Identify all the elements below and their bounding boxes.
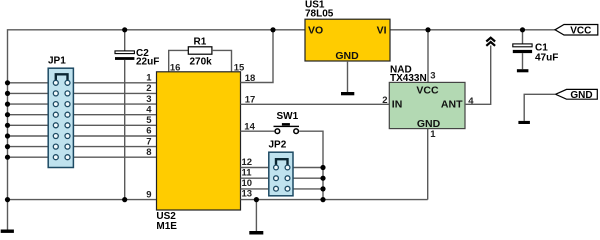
ground left rail [1, 230, 14, 233]
pin numbers 1-8 [146, 73, 152, 158]
svg-text:VI: VI [377, 25, 387, 37]
junction dots ground row [122, 197, 127, 202]
svg-text:VCC: VCC [570, 25, 591, 36]
switch SW1 [274, 111, 300, 133]
wire row1 [8, 82, 157, 84]
flag VCC [555, 25, 598, 37]
wire ground stub mid [255, 200, 257, 231]
svg-text:14: 14 [244, 121, 255, 132]
ground GND flag [518, 121, 530, 124]
svg-text:4: 4 [468, 96, 474, 107]
wire pin9 ground row [8, 199, 157, 201]
wire row8 [8, 156, 157, 158]
wire row6 [8, 135, 157, 137]
svg-text:R1: R1 [194, 36, 207, 47]
IC US1 78L05 [305, 0, 390, 62]
wire GND flag [524, 94, 555, 121]
svg-text:2: 2 [382, 95, 387, 106]
svg-text:6: 6 [146, 126, 151, 137]
connector JP1 [48, 55, 73, 167]
wire pin17 to TX IN [241, 103, 390, 105]
wire 5V top rail [8, 30, 306, 230]
wire pin13 ground row [241, 199, 428, 201]
wire SW1 to vertical [299, 131, 323, 199]
antenna [486, 38, 495, 46]
wire pin18 to 5V rail [241, 30, 274, 83]
svg-text:3: 3 [430, 71, 435, 82]
svg-text:M1E: M1E [156, 221, 177, 232]
svg-text:15: 15 [234, 63, 245, 74]
junction dots left rail [5, 80, 10, 202]
svg-text:18: 18 [245, 73, 256, 84]
svg-text:GND: GND [335, 50, 359, 62]
svg-text:4: 4 [146, 104, 152, 115]
svg-text:TX433N: TX433N [390, 73, 427, 84]
wire TX VCC to rail [427, 30, 429, 83]
svg-text:SW1: SW1 [277, 111, 299, 122]
connector JP2 [269, 140, 294, 196]
svg-text:11: 11 [242, 168, 253, 179]
svg-text:JP2: JP2 [269, 140, 287, 151]
capacitor C1 [513, 30, 559, 69]
svg-text:47uF: 47uF [535, 52, 558, 63]
ground US1 [341, 92, 354, 95]
svg-text:22uF: 22uF [136, 57, 159, 68]
svg-text:270k: 270k [190, 57, 213, 68]
capacitor C2 [115, 30, 159, 200]
ground mid [249, 231, 263, 235]
pin numbers 12 11 10 13 [242, 157, 253, 200]
svg-text:ANT: ANT [441, 99, 463, 111]
svg-text:VO: VO [308, 25, 323, 37]
svg-text:1: 1 [146, 73, 152, 84]
wire TX pin1 up [427, 129, 429, 200]
svg-text:VCC: VCC [416, 85, 439, 97]
svg-text:JP1: JP1 [48, 55, 66, 66]
svg-text:78L05: 78L05 [305, 8, 334, 19]
svg-text:2: 2 [146, 83, 151, 94]
junction dots JP2 vertical [320, 165, 325, 170]
wire row5 [8, 124, 157, 126]
wire VI rail to VCC flag [390, 29, 555, 31]
wire US1 gnd stub [347, 61, 349, 92]
junction dots top rail [122, 27, 127, 32]
svg-text:9: 9 [146, 189, 151, 200]
wire row3 [8, 103, 157, 105]
svg-text:17: 17 [245, 95, 256, 106]
svg-text:3: 3 [146, 94, 151, 105]
wire row4 [8, 114, 157, 116]
flag GND [556, 89, 598, 101]
wire pin14 row [241, 130, 275, 132]
IC US2 M1E [156, 72, 240, 232]
svg-text:13: 13 [242, 188, 253, 199]
svg-text:GND: GND [570, 90, 592, 101]
module NAD TX433N [389, 65, 465, 131]
svg-text:12: 12 [242, 157, 253, 168]
svg-text:1: 1 [430, 129, 436, 140]
wires pins 12,11,10 to JP2 [241, 168, 324, 189]
wire ANT to antenna [465, 46, 491, 105]
wire row7 [8, 146, 157, 148]
svg-text:IN: IN [392, 99, 403, 111]
svg-text:5: 5 [146, 115, 152, 126]
svg-text:16: 16 [170, 63, 181, 74]
svg-text:GND: GND [417, 118, 441, 130]
wire row2 [8, 92, 157, 94]
resistor R1 [169, 36, 232, 71]
ground C1 [517, 69, 529, 72]
svg-text:8: 8 [146, 147, 151, 158]
svg-text:7: 7 [146, 136, 151, 147]
